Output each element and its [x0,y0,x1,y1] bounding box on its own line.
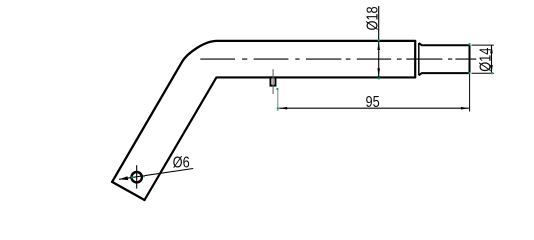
dimension Ø14: upper arrowhead [490,45,493,53]
dimension Ø18: lower arrowhead [377,68,380,76]
tube centerline (dash-dot) [200,58,476,60]
pin inner contour (bottom line, inner corner, inner diagonal edge) [145,77,416,200]
CAD endpoint marker dots (green) [131,39,493,178]
dimension 95: left arrowhead [279,107,287,110]
dimension Ø6: arrowhead at lower-left end [119,176,128,180]
dimension 95: dimension line [279,107,469,109]
svg-text:Ø18: Ø18 [364,6,382,30]
pin outer contour (top line, bend, outer diagonal edge) [112,41,415,182]
dimension 95: left extension line (gray) [277,90,279,112]
dimension 95: right extension line below tube end [469,74,471,112]
stub centermark line [272,69,274,94]
small tube (Ø14 section) bottom line with chamfer [419,73,470,75]
dimension 95: right arrowhead [461,107,469,110]
small tube (Ø14 section) top line with chamfer [419,43,470,45]
dimension Ø14: bottom extension line [472,72,494,74]
hole vertical centermark [136,165,138,188]
svg-text:Ø14: Ø14 [477,48,495,72]
dimension Ø14: top extension line [472,44,494,46]
dimension Ø14: lower arrowhead [490,65,493,73]
dimension Ø18: vertical dimension line [378,6,380,77]
dimension Ø18: upper arrowhead [377,42,380,50]
neck ring vertical line [418,43,420,75]
hole circle Ø6 [132,172,142,182]
small tube right end face [469,45,471,73]
big tube end face vertical line at step [414,41,416,78]
pin end face (flattened tip cut) [112,182,144,200]
dimension Ø6: leader line through hole [119,169,193,180]
svg-text:Ø6: Ø6 [173,154,190,172]
dimension Ø14: vertical dimension line [491,45,493,73]
retaining pin stub rectangle below tube [270,77,275,85]
svg-text:95: 95 [365,94,379,112]
